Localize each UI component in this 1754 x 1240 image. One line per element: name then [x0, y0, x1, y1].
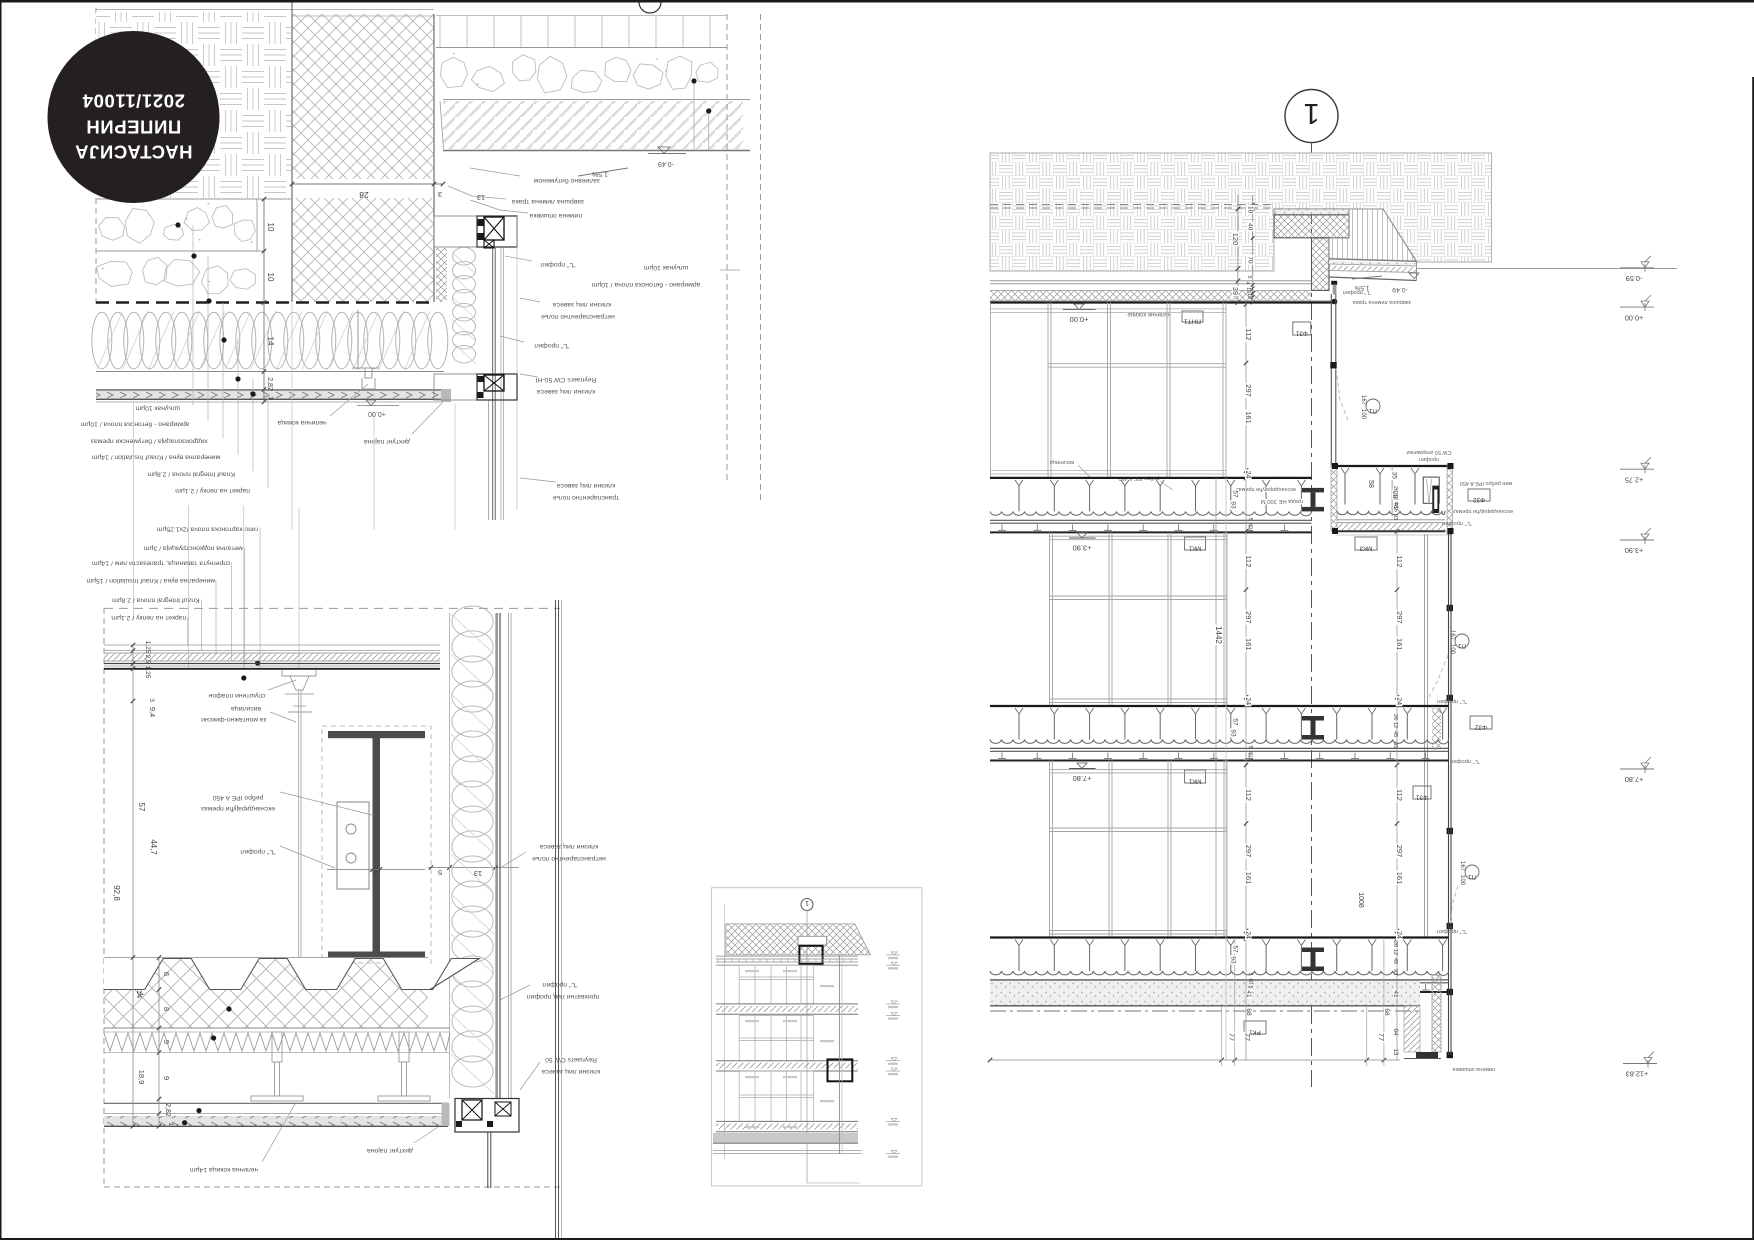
- svg-text:112: 112: [1244, 789, 1253, 801]
- svg-text:45: 45: [1392, 731, 1398, 737]
- svg-text:5: 5: [1247, 746, 1253, 749]
- svg-text:70: 70: [1247, 256, 1254, 264]
- svg-text:1008: 1008: [1357, 892, 1364, 908]
- svg-text:1: 1: [805, 899, 809, 906]
- svg-text:12: 12: [1392, 722, 1398, 728]
- svg-text:Ф32: Ф32: [1475, 724, 1488, 731]
- svg-text:спрегнута таваница, трапезасти: спрегнута таваница, трапезасти лим / 14μ…: [92, 560, 231, 567]
- svg-text:+0.00: +0.00: [368, 410, 386, 417]
- svg-text:5: 5: [1246, 275, 1252, 278]
- svg-text:77: 77: [1243, 1033, 1252, 1041]
- svg-text:+0.00: +0.00: [1625, 313, 1643, 322]
- svg-text:167: 167: [1459, 861, 1465, 872]
- svg-text:45: 45: [1392, 503, 1398, 509]
- svg-text:НАСТАСИЈА: НАСТАСИЈА: [75, 142, 193, 163]
- svg-text:161: 161: [1244, 411, 1253, 424]
- svg-text:64: 64: [1392, 1028, 1399, 1036]
- svg-text:-0.59: -0.59: [1626, 274, 1643, 283]
- svg-text:П1: П1: [1369, 407, 1377, 413]
- svg-text:греда HE 300 M: греда HE 300 M: [1261, 498, 1304, 504]
- svg-text:161: 161: [1395, 872, 1404, 885]
- svg-text:39: 39: [1231, 287, 1238, 295]
- svg-text:армирано - бетонска плоча / 10: армирано - бетонска плоча / 10μm: [80, 420, 189, 428]
- svg-text:"L" профил: "L" профил: [1442, 520, 1472, 526]
- svg-text:112: 112: [1244, 555, 1253, 567]
- svg-text:клизни лиц завеса: клизни лиц завеса: [537, 388, 596, 395]
- svg-text:12: 12: [1392, 949, 1398, 955]
- svg-text:93: 93: [1229, 729, 1236, 737]
- svg-text:5: 5: [1247, 986, 1253, 989]
- svg-text:100: 100: [1360, 409, 1366, 420]
- svg-text:5: 5: [162, 1040, 171, 1044]
- svg-text:161: 161: [1244, 638, 1253, 651]
- svg-text:10: 10: [266, 223, 275, 232]
- svg-text:шљунак 10μm: шљунак 10μm: [135, 404, 180, 411]
- svg-text:мин ребро IPE A 450: мин ребро IPE A 450: [1460, 480, 1512, 486]
- svg-text:13: 13: [477, 193, 485, 202]
- svg-text:9,4: 9,4: [148, 707, 157, 717]
- svg-text:57: 57: [1232, 490, 1239, 498]
- svg-text:24: 24: [1395, 931, 1402, 939]
- svg-text:МК3: МК3: [1359, 545, 1372, 552]
- svg-text:метална подконструкција / 3μm: метална подконструкција / 3μm: [143, 545, 242, 552]
- svg-text:5: 5: [1247, 531, 1253, 534]
- svg-text:+7.80: +7.80: [1073, 774, 1092, 783]
- svg-text:5: 5: [1247, 759, 1253, 762]
- svg-text:ПИПЕРИН: ПИПЕРИН: [86, 117, 181, 138]
- svg-text:Reynaers CW 50: Reynaers CW 50: [545, 1056, 597, 1063]
- svg-text:93: 93: [1392, 742, 1398, 748]
- svg-text:167: 167: [1449, 630, 1455, 641]
- svg-text:1,25: 1,25: [144, 641, 151, 654]
- svg-text:57: 57: [1232, 945, 1239, 953]
- svg-text:за монтажно-фиксни: за монтажно-фиксни: [201, 716, 267, 723]
- svg-text:завршна лимена трака: завршна лимена трака: [1352, 299, 1412, 305]
- svg-text:77: 77: [1228, 1033, 1237, 1041]
- svg-text:"L" профил: "L" профил: [1343, 289, 1371, 295]
- svg-text:161: 161: [1244, 872, 1253, 885]
- svg-text:П1: П1: [1468, 873, 1476, 879]
- svg-text:нетранспарентно поље: нетранспарентно поље: [541, 313, 615, 320]
- svg-text:висилица: висилица: [1049, 459, 1074, 465]
- svg-text:24: 24: [1244, 697, 1251, 705]
- svg-text:шљунак 10μm: шљунак 10μm: [643, 264, 688, 271]
- svg-text:дихтунг пајона: дихтунг пајона: [367, 1147, 413, 1154]
- svg-text:1: 1: [1303, 97, 1319, 129]
- svg-text:2,82: 2,82: [164, 1103, 171, 1117]
- svg-text:3: 3: [148, 698, 155, 702]
- svg-text:77: 77: [1377, 1033, 1386, 1041]
- svg-text:+12.83: +12.83: [1626, 1070, 1649, 1079]
- svg-text:4: 4: [1244, 282, 1250, 285]
- svg-text:2021/11004: 2021/11004: [82, 91, 185, 112]
- svg-text:93: 93: [1392, 514, 1398, 520]
- svg-text:12: 12: [1392, 494, 1398, 500]
- svg-text:минерална вуна / Knauf Insulat: минерална вуна / Knauf Insulation / 14μm: [91, 454, 220, 461]
- svg-text:45: 45: [1392, 958, 1398, 964]
- svg-text:+7.80: +7.80: [1625, 775, 1643, 784]
- svg-text:120: 120: [1231, 233, 1240, 246]
- svg-text:8: 8: [162, 1007, 171, 1011]
- svg-text:челичне кокице: челичне кокице: [1127, 311, 1171, 317]
- svg-text:висилица: висилица: [231, 705, 261, 712]
- svg-text:лимена опшивка: лимена опшивка: [1452, 1066, 1496, 1072]
- svg-text:10: 10: [266, 273, 275, 282]
- svg-text:челична кокица 14μm: челична кокица 14μm: [190, 1166, 258, 1173]
- svg-text:"L" профил: "L" профил: [1437, 698, 1467, 704]
- svg-text:клизни лиц завеса: клизни лиц завеса: [553, 301, 612, 308]
- svg-text:дихтунг пајона: дихтунг пајона: [364, 438, 410, 445]
- svg-text:2,82: 2,82: [266, 377, 273, 391]
- svg-text:МК1: МК1: [1188, 545, 1201, 552]
- svg-text:92,8: 92,8: [112, 885, 121, 901]
- svg-text:"L" профил: "L" профил: [534, 342, 569, 349]
- svg-text:6: 6: [162, 972, 171, 976]
- svg-text:28: 28: [359, 190, 369, 200]
- svg-text:Knauf Integral плоча / 2.8μm: Knauf Integral плоча / 2.8μm: [147, 470, 235, 477]
- svg-text:Reynaers CW 50-HI: Reynaers CW 50-HI: [535, 376, 596, 383]
- svg-text:гипс-картонска плоча /2x1.25μm: гипс-картонска плоча /2x1.25μm: [156, 525, 258, 532]
- svg-text:41: 41: [1392, 990, 1399, 998]
- svg-text:"L" профил: "L" профил: [1437, 928, 1467, 934]
- svg-text:спуштени плафон: спуштени плафон: [208, 692, 265, 699]
- svg-text:екснандирајући премаз: екснандирајући премаз: [201, 805, 275, 813]
- svg-text:100: 100: [1459, 875, 1465, 886]
- svg-text:транспарентно поље: транспарентно поље: [553, 494, 620, 501]
- svg-text:паркет на лепку / 2.1μm: паркет на лепку / 2.1μm: [175, 487, 250, 494]
- svg-text:112: 112: [1244, 329, 1253, 341]
- svg-text:44,7: 44,7: [149, 839, 158, 855]
- svg-text:14: 14: [266, 337, 275, 346]
- svg-text:297: 297: [1244, 611, 1253, 624]
- svg-text:екснандирајући премаз: екснандирајући премаз: [1236, 486, 1296, 492]
- svg-text:26: 26: [1392, 486, 1398, 492]
- svg-text:+3.90: +3.90: [1073, 544, 1092, 553]
- svg-text:161: 161: [1395, 638, 1404, 651]
- svg-text:26: 26: [1392, 941, 1398, 947]
- svg-text:40: 40: [1247, 523, 1253, 529]
- svg-text:35: 35: [1390, 472, 1397, 480]
- svg-text:93: 93: [1392, 969, 1398, 975]
- svg-text:24: 24: [1395, 697, 1402, 705]
- svg-text:10: 10: [1247, 206, 1254, 214]
- svg-text:-0.49: -0.49: [658, 160, 674, 167]
- svg-text:залиевно битуменом: залиевно битуменом: [534, 177, 601, 185]
- svg-text:10: 10: [1245, 287, 1251, 293]
- svg-text:клизни лиц завеса: клизни лиц завеса: [557, 482, 616, 489]
- svg-text:57: 57: [1232, 718, 1239, 726]
- svg-text:10: 10: [1246, 293, 1252, 299]
- svg-text:паркет на лепку / 2.1μm: паркет на лепку / 2.1μm: [111, 614, 186, 621]
- svg-text:1,25: 1,25: [144, 666, 151, 679]
- svg-text:5: 5: [438, 868, 442, 877]
- svg-text:5: 5: [1247, 518, 1253, 521]
- svg-text:лимена опшивка: лимена опшивка: [529, 212, 582, 219]
- svg-text:ребро IPE A 450: ребро IPE A 450: [212, 794, 263, 802]
- svg-text:Ф32: Ф32: [1473, 496, 1486, 503]
- svg-text:112: 112: [1395, 555, 1404, 567]
- svg-text:3: 3: [438, 190, 442, 199]
- svg-text:"L" профил: "L" профил: [1450, 758, 1480, 764]
- svg-text:167: 167: [1360, 395, 1366, 406]
- svg-text:+2.75: +2.75: [1625, 475, 1643, 484]
- svg-text:нетранспарентно поље: нетранспарентно поље: [532, 855, 606, 862]
- svg-text:18,9: 18,9: [137, 1070, 146, 1085]
- svg-text:ПНТ1: ПНТ1: [1184, 318, 1201, 325]
- svg-text:24: 24: [1244, 471, 1251, 479]
- svg-text:CW 50 атермички: CW 50 атермички: [1406, 449, 1451, 455]
- svg-text:прихватни лиц профил: прихватни лиц профил: [527, 993, 600, 1000]
- svg-text:клизни лиц завеса: клизни лиц завеса: [542, 1068, 601, 1075]
- svg-text:40: 40: [1247, 978, 1253, 984]
- svg-text:"L" профил: "L" профил: [540, 261, 575, 268]
- svg-text:-0.49: -0.49: [1392, 286, 1408, 293]
- svg-text:1: 1: [167, 1122, 174, 1126]
- svg-text:93: 93: [1229, 501, 1236, 509]
- svg-text:1442: 1442: [1214, 626, 1223, 644]
- svg-text:58: 58: [1367, 480, 1374, 488]
- svg-text:+0.00: +0.00: [1070, 315, 1089, 324]
- svg-text:челична кокица: челична кокица: [277, 419, 326, 426]
- svg-text:297: 297: [1395, 845, 1404, 858]
- svg-text:297: 297: [1395, 611, 1404, 624]
- svg-text:Ф31: Ф31: [1416, 794, 1429, 801]
- svg-text:клизни лиц завеса: клизни лиц завеса: [540, 843, 599, 850]
- svg-text:армирано - бетонска плоча / 10: армирано - бетонска плоча / 10μm: [591, 281, 700, 289]
- svg-text:"L" профил: "L" профил: [542, 981, 577, 988]
- svg-text:68: 68: [1383, 1008, 1390, 1016]
- svg-text:П1: П1: [1458, 642, 1466, 648]
- svg-text:26: 26: [1392, 714, 1398, 720]
- svg-text:297: 297: [1244, 384, 1253, 397]
- svg-text:+3.90: +3.90: [1625, 546, 1643, 555]
- svg-text:297: 297: [1244, 845, 1253, 858]
- svg-text:Ф31: Ф31: [1295, 330, 1308, 337]
- svg-text:Knauf Integral плоча / 2.8μm: Knauf Integral плоча / 2.8μm: [112, 597, 200, 604]
- svg-text:14: 14: [135, 990, 144, 998]
- svg-text:хидроизолација / битуменски пр: хидроизолација / битуменски премаз: [91, 438, 208, 446]
- svg-text:40: 40: [1247, 223, 1254, 231]
- svg-text:5: 5: [1247, 973, 1253, 976]
- svg-text:93: 93: [1229, 956, 1236, 964]
- svg-text:2,5: 2,5: [144, 654, 151, 663]
- svg-text:"L" профил: "L" профил: [240, 848, 275, 855]
- svg-text:9: 9: [162, 1076, 171, 1080]
- svg-text:112: 112: [1395, 789, 1404, 801]
- svg-text:57: 57: [137, 803, 146, 812]
- svg-text:екснандирајући премаз: екснандирајући премаз: [1453, 508, 1513, 514]
- svg-text:минерална вуна / Knauf Insulat: минерална вуна / Knauf Insulation / 15μm: [86, 577, 215, 584]
- svg-text:завршна лимена трака: завршна лимена трака: [512, 198, 585, 205]
- svg-text:МК1: МК1: [1188, 778, 1201, 785]
- svg-text:профил: профил: [1419, 456, 1439, 462]
- svg-text:18: 18: [372, 870, 380, 877]
- svg-text:24: 24: [1244, 931, 1251, 939]
- svg-text:100: 100: [1449, 644, 1455, 655]
- svg-text:40: 40: [1247, 751, 1253, 757]
